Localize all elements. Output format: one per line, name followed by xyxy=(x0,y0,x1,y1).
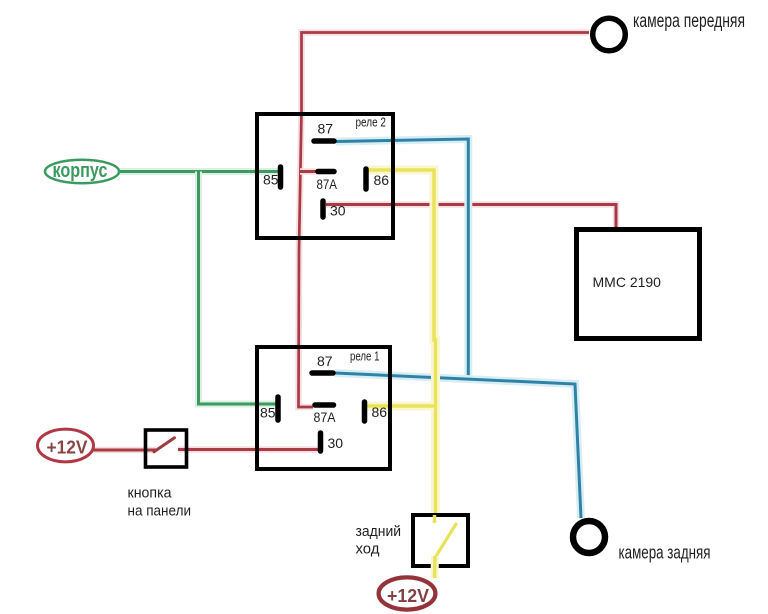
wire blue: relay2 pin 87 down to junction xyxy=(336,139,468,378)
relay K2 pin 85 xyxy=(263,167,281,188)
relay K2 pin 30 xyxy=(323,201,346,219)
wire green: branch down to relay1 pin 85 xyxy=(199,172,278,405)
wire red: +12V to panel button xyxy=(90,447,156,454)
svg-text:+12V: +12V xyxy=(387,585,430,606)
panel button box xyxy=(146,430,187,467)
svg-text:ход: ход xyxy=(356,541,380,558)
chassis ground node корпус xyxy=(45,160,119,183)
svg-text:реле 1: реле 1 xyxy=(350,350,380,364)
wire yellow: relay2 pin 86 down to reverse switch xyxy=(367,170,436,513)
reverse-gear switch fixed contact xyxy=(433,515,437,523)
relay K1 pin 87A xyxy=(314,405,337,425)
+12V supply node (panel button) xyxy=(38,429,94,462)
relay K1 pin 86 xyxy=(365,402,388,421)
wire red: relay2 pin 30 to MMC 2190 xyxy=(326,205,616,230)
svg-text:87: 87 xyxy=(318,121,334,137)
svg-text:85: 85 xyxy=(260,405,276,421)
svg-text:реле 2: реле 2 xyxy=(356,116,387,130)
relay K1 label xyxy=(350,350,380,364)
svg-text:85: 85 xyxy=(263,172,279,188)
MMC 2190 head unit box xyxy=(577,230,700,339)
panel button caption xyxy=(128,485,192,520)
relay K2 pin 87A xyxy=(317,172,338,193)
svg-text:30: 30 xyxy=(330,203,346,219)
svg-text:86: 86 xyxy=(372,404,388,420)
svg-text:86: 86 xyxy=(374,172,390,188)
rear camera label xyxy=(619,543,711,563)
svg-text:ММС 2190: ММС 2190 xyxy=(593,274,662,290)
reverse-gear switch box xyxy=(413,515,468,566)
reverse-gear switch blade xyxy=(436,524,457,557)
wire red: panel button to relay1 pin 30 xyxy=(178,446,321,453)
svg-text:на панели: на панели xyxy=(128,503,192,520)
relay K1 pin 85 xyxy=(260,397,278,421)
svg-text:камера передняя: камера передняя xyxy=(633,11,745,32)
relay K1 box xyxy=(257,347,390,469)
wire blue: relay1 pin 87 to rear camera xyxy=(335,373,581,518)
svg-text:задний: задний xyxy=(356,523,402,540)
relay K2 pin 87 xyxy=(314,121,334,142)
front camera label xyxy=(633,11,745,32)
wire red branch to relay2 pin 87A xyxy=(300,168,317,175)
panel button switch blade xyxy=(154,438,175,452)
svg-text:87: 87 xyxy=(317,353,333,369)
svg-text:30: 30 xyxy=(328,435,344,451)
relay K1 pin 30 xyxy=(321,433,344,451)
wire red: front camera feed down to relay coils xyxy=(299,33,590,408)
svg-text:камера задняя: камера задняя xyxy=(619,543,711,563)
wire yellow: reverse switch to +12V supply xyxy=(431,556,440,578)
wire green: корпус to relay2 pin 85 xyxy=(115,168,280,175)
svg-text:87A: 87A xyxy=(314,409,337,425)
svg-text:+12V: +12V xyxy=(47,438,88,458)
svg-text:87A: 87A xyxy=(317,176,338,192)
relay K1 pin 87 xyxy=(312,353,333,373)
rear camera connector xyxy=(573,521,605,553)
relay K2 label xyxy=(356,116,387,130)
relay K2 box xyxy=(257,114,393,238)
+12V supply node (reverse lamp) xyxy=(379,577,436,609)
svg-text:корпус: корпус xyxy=(53,160,108,182)
reverse-gear caption xyxy=(356,523,402,558)
relay K2 pin 86 xyxy=(366,169,389,189)
svg-text:кнопка: кнопка xyxy=(128,485,173,502)
front camera connector xyxy=(593,18,626,51)
wire yellow: relay1 pin 86 branch xyxy=(367,402,434,411)
